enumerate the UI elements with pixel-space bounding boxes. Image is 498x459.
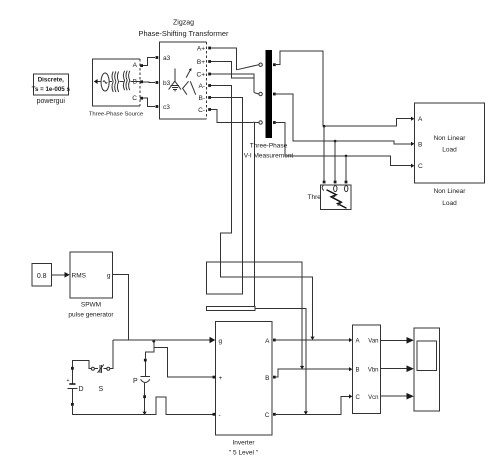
wire down to breaker port 2 bbox=[334, 141, 336, 181]
wire constant to SPWM bbox=[52, 274, 66, 276]
measurement input circle 2 bbox=[259, 92, 262, 95]
inverter port plus bbox=[213, 376, 216, 379]
svg-text:C: C bbox=[356, 395, 361, 401]
wire measurement out 2 to load B bbox=[276, 94, 412, 144]
wire D top to switch bbox=[72, 360, 91, 368]
svg-text:P: P bbox=[133, 378, 138, 385]
junction arrow A net bbox=[310, 337, 314, 340]
transformer icon bbox=[169, 68, 196, 94]
svg-text:a3: a3 bbox=[163, 55, 171, 62]
junction arrow C net bbox=[304, 411, 308, 414]
junction dot gate line bbox=[152, 340, 155, 343]
svg-text:Thre: Thre bbox=[308, 194, 322, 201]
arrow into mux B bbox=[349, 367, 352, 371]
breaker port 3 bbox=[345, 181, 348, 184]
wire C- to measurement input 3 bbox=[211, 110, 253, 123]
powergui block bbox=[32, 74, 71, 105]
inverter port C bbox=[273, 413, 276, 416]
wire tag to inverter C net bbox=[255, 308, 306, 412]
wire down to breaker port 1 bbox=[323, 126, 325, 180]
source port C bbox=[140, 97, 143, 100]
svg-text:-: - bbox=[219, 412, 221, 419]
transformer port C- bbox=[208, 108, 211, 111]
svg-text:B+: B+ bbox=[197, 59, 205, 66]
arrow scope 3 bbox=[407, 393, 414, 400]
svg-text:A+: A+ bbox=[197, 46, 205, 53]
wire switch to gate line bbox=[110, 340, 113, 369]
wire junction to inverter plus bbox=[154, 348, 213, 378]
wire D bottom rail to inverter minus bbox=[72, 397, 212, 414]
wire SPWM g down bbox=[112, 274, 128, 340]
svg-text:g: g bbox=[107, 272, 111, 279]
transformer port a3 bbox=[156, 56, 159, 59]
inverter block bbox=[216, 321, 272, 456]
svg-text:Three-Phase Source: Three-Phase Source bbox=[89, 112, 144, 118]
source icon bbox=[94, 71, 140, 93]
wire measurement out 1 to load A bbox=[276, 51, 412, 126]
wire P bottom to rail bbox=[144, 398, 146, 413]
svg-text:S: S bbox=[99, 386, 104, 393]
arrow into mux A bbox=[349, 338, 352, 342]
three-phase V-I measurement block bbox=[244, 50, 294, 160]
svg-text:" 5 Level ": " 5 Level " bbox=[229, 450, 259, 457]
svg-text:D: D bbox=[79, 386, 84, 393]
svg-text:B: B bbox=[418, 141, 422, 148]
junction arrow B net bbox=[300, 366, 304, 369]
svg-text:+: + bbox=[67, 378, 70, 384]
measurement input circle 3 bbox=[259, 121, 262, 124]
transformer port B+ bbox=[208, 60, 211, 63]
svg-text:C+: C+ bbox=[197, 72, 206, 79]
wire Vbn to scope bbox=[381, 368, 408, 370]
breaker switch S bbox=[91, 364, 109, 393]
transformer port C+ bbox=[208, 73, 211, 76]
svg-text:Non Linear: Non Linear bbox=[434, 135, 467, 142]
wire source A to a3 bbox=[143, 58, 155, 66]
svg-text:A-: A- bbox=[199, 83, 206, 90]
svg-text:g: g bbox=[219, 338, 223, 345]
svg-text:Van: Van bbox=[368, 339, 378, 345]
svg-text:RMS: RMS bbox=[72, 272, 87, 279]
transformer port A- bbox=[208, 84, 211, 87]
svg-text:Phase-Shifting Transformer: Phase-Shifting Transformer bbox=[139, 29, 229, 38]
breaker port 2 bbox=[334, 181, 337, 184]
svg-text:C: C bbox=[418, 163, 423, 170]
wire B+ join bbox=[211, 62, 254, 79]
wire source B to b3 bbox=[143, 81, 155, 84]
inverter port B bbox=[273, 376, 276, 379]
arrow into load B bbox=[411, 142, 414, 146]
transformer port A+ bbox=[208, 47, 211, 50]
source port A bbox=[140, 64, 143, 67]
wire Van to scope bbox=[381, 339, 408, 341]
svg-text:C-: C- bbox=[198, 107, 205, 114]
transformer port b3 bbox=[156, 81, 159, 84]
thin tag rectangle bbox=[206, 307, 255, 311]
svg-text:Three-Phase: Three-Phase bbox=[250, 143, 288, 150]
svg-text:0.8: 0.8 bbox=[37, 273, 47, 280]
wire B- down to inverter B net bbox=[206, 98, 302, 367]
svg-text:b3: b3 bbox=[163, 80, 171, 87]
svg-text:powergui: powergui bbox=[37, 98, 66, 105]
svg-text:A: A bbox=[133, 62, 138, 69]
junction dot breaker phase C bbox=[345, 155, 348, 158]
wire source C to c3 bbox=[143, 98, 155, 106]
svg-text:A: A bbox=[418, 116, 423, 123]
inverter port A bbox=[273, 339, 276, 342]
svg-text:Vcn: Vcn bbox=[368, 395, 378, 401]
inverter port minus bbox=[213, 413, 216, 416]
measurement output port 3 bbox=[273, 121, 276, 124]
svg-text:pulse generator: pulse generator bbox=[68, 312, 114, 319]
wire inverter C to mux bbox=[276, 396, 350, 414]
svg-text:c3: c3 bbox=[163, 104, 170, 111]
wire C+ to measurement input 2 bbox=[211, 74, 254, 93]
source port B bbox=[140, 80, 143, 83]
svg-text:Inverter: Inverter bbox=[232, 440, 255, 447]
gate line to inverter bbox=[113, 339, 211, 341]
svg-text:SPWM: SPWM bbox=[81, 302, 101, 309]
svg-text:Non Linear: Non Linear bbox=[434, 188, 467, 195]
transformer port c3 bbox=[156, 105, 159, 108]
junction dot breaker phase B bbox=[334, 140, 337, 143]
svg-text:B: B bbox=[356, 368, 360, 374]
svg-text:C: C bbox=[265, 412, 270, 419]
breaker port 1 bbox=[323, 181, 326, 184]
svg-text:A: A bbox=[356, 339, 360, 345]
wire A+ to measurement input 1 bbox=[211, 48, 237, 70]
wire C- branch down to inverter C net bbox=[253, 122, 255, 306]
measurement input circle 1 bbox=[259, 63, 262, 66]
transformer port B- bbox=[208, 96, 211, 99]
zigzag transformer block bbox=[139, 20, 229, 119]
measurement output port 1 bbox=[273, 63, 276, 66]
svg-text:B-: B- bbox=[199, 95, 206, 102]
arrow into load C bbox=[411, 164, 414, 168]
junction dot breaker phase A bbox=[323, 125, 326, 128]
constant 0.8 block bbox=[32, 264, 52, 287]
signal selector block bbox=[352, 325, 380, 413]
svg-text:Load: Load bbox=[442, 147, 457, 154]
wire down to breaker port 3 bbox=[345, 156, 347, 181]
svg-text:Zigzag: Zigzag bbox=[173, 20, 194, 27]
arrow scope 1 bbox=[407, 337, 414, 344]
three-phase source block bbox=[89, 59, 144, 117]
arrow into mux C bbox=[349, 394, 352, 398]
SPWM pulse generator block bbox=[68, 252, 114, 319]
svg-text:+: + bbox=[219, 375, 223, 382]
svg-text:C: C bbox=[132, 95, 137, 102]
three-phase fault block bbox=[321, 185, 351, 209]
svg-text:Ts = 1e-005 s: Ts = 1e-005 s bbox=[32, 86, 71, 93]
svg-text:Load: Load bbox=[442, 200, 457, 207]
arrow into load A bbox=[411, 117, 414, 121]
scope block bbox=[414, 328, 440, 411]
arrow into RMS bbox=[65, 272, 70, 278]
non linear load block bbox=[415, 103, 485, 207]
arrow into inverter g bbox=[210, 337, 216, 343]
svg-text:A: A bbox=[265, 338, 270, 345]
capacitor P bbox=[133, 359, 150, 398]
junction arrow P rail bbox=[143, 412, 147, 415]
wire A- down to inverter A net bbox=[211, 86, 313, 338]
arrow scope 2 bbox=[407, 365, 414, 372]
wire measurement out 3 to load C bbox=[276, 123, 412, 166]
svg-text:B: B bbox=[265, 375, 269, 382]
svg-text:Vbn: Vbn bbox=[368, 368, 379, 374]
wire Vcn to scope bbox=[381, 395, 408, 397]
dc source D bbox=[67, 367, 84, 406]
svg-text:Discrete,: Discrete, bbox=[38, 77, 64, 84]
wire inverter B to mux bbox=[276, 369, 350, 377]
measurement output port 2 bbox=[273, 93, 276, 96]
wire gate junction to P top and inverter plus bbox=[145, 340, 154, 359]
wire inverter A to mux bbox=[276, 339, 350, 341]
